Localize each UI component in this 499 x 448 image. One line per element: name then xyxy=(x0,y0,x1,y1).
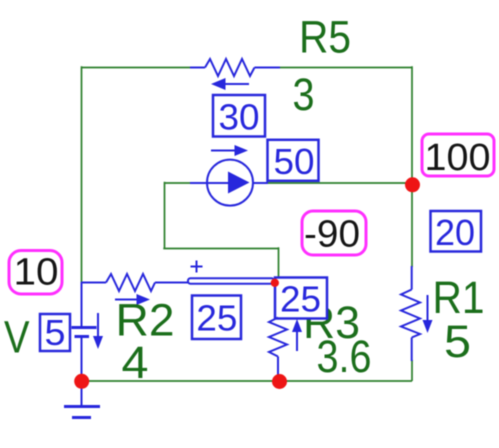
wire right vertical lower xyxy=(411,360,413,381)
junction mini dot xyxy=(271,279,279,287)
R5 current direction arrow (left) xyxy=(211,78,249,90)
current source arrow (right) xyxy=(211,145,248,156)
svg-text:100: 100 xyxy=(425,137,491,179)
junction dot bottom-middle xyxy=(272,374,287,389)
voltage source V xyxy=(72,282,97,381)
node voltage label 100 xyxy=(422,134,494,179)
R1 current direction arrow (down) xyxy=(423,295,433,333)
wire middle left (to current source) xyxy=(165,182,191,184)
current label 25 (R3 branch) xyxy=(275,278,327,320)
resistor R2 xyxy=(82,274,189,291)
svg-text:3.6: 3.6 xyxy=(317,331,372,382)
wire middle right (current source to node 100) xyxy=(268,182,412,184)
resistor R5 xyxy=(190,59,280,76)
svg-text:30: 30 xyxy=(219,97,260,138)
wire left vertical xyxy=(81,66,83,283)
ground xyxy=(64,381,100,418)
svg-text:50: 50 xyxy=(274,141,315,182)
current label 25 (R2 branch) xyxy=(192,296,241,340)
svg-text:V: V xyxy=(4,312,30,363)
wire inner loop right vertical xyxy=(278,247,280,279)
flat wire element (sense element) xyxy=(188,278,274,283)
svg-text:R5: R5 xyxy=(299,12,351,63)
wire inner loop left vertical xyxy=(164,182,166,249)
svg-text:25: 25 xyxy=(196,298,237,339)
wire inner loop bottom horizontal xyxy=(163,248,278,250)
node junction dot (node 100) xyxy=(405,177,420,192)
R2 current direction arrow (right) xyxy=(115,294,150,305)
V value label 5 xyxy=(40,312,70,353)
current label 50 xyxy=(268,140,319,182)
svg-text:5: 5 xyxy=(45,312,66,353)
wire top-right horizontal xyxy=(280,67,412,69)
resistor R3 xyxy=(269,318,287,377)
V source arrow (down) xyxy=(93,313,103,349)
node voltage label -90 xyxy=(302,211,366,256)
wire bottom horizontal xyxy=(82,380,413,382)
svg-text:10: 10 xyxy=(14,252,59,294)
R3 current direction arrow (up) xyxy=(292,319,302,351)
current label 30 xyxy=(213,95,265,138)
resistor R1 xyxy=(401,266,420,361)
junction dot bottom-left xyxy=(74,374,89,389)
svg-text:25: 25 xyxy=(280,279,321,320)
svg-text:5: 5 xyxy=(444,316,471,367)
wire top-left horizontal xyxy=(82,67,196,69)
svg-text:4: 4 xyxy=(122,337,149,388)
svg-text:3: 3 xyxy=(293,69,315,120)
svg-text:20: 20 xyxy=(435,212,475,253)
polarity + sign xyxy=(191,261,203,273)
node voltage label 10 xyxy=(9,251,62,295)
svg-text:-90: -90 xyxy=(304,214,360,256)
current source I1 xyxy=(190,160,268,206)
wire right vertical upper xyxy=(411,66,413,267)
current label 20 xyxy=(431,211,482,253)
